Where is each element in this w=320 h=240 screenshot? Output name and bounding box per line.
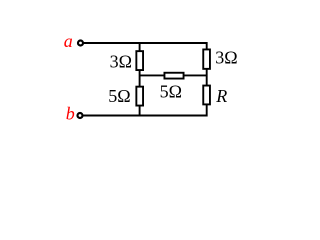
wire: right rail (top corner down to bottom corner) <box>206 42 208 116</box>
svg-text:3Ω: 3Ω <box>110 51 132 71</box>
terminal a circle <box>78 41 83 46</box>
resistor R box <box>203 86 210 105</box>
svg-text:5Ω: 5Ω <box>160 82 182 102</box>
svg-text:5Ω: 5Ω <box>108 86 130 106</box>
wire: top from terminal a to top-right corner <box>83 42 206 44</box>
svg-text:R: R <box>215 86 227 106</box>
svg-text:b: b <box>66 103 75 123</box>
resistor 3ohm left box <box>136 51 143 70</box>
svg-text:3Ω: 3Ω <box>215 47 237 67</box>
resistor 3ohm right box <box>203 49 210 68</box>
svg-text:a: a <box>64 31 73 51</box>
wire: left rail from top wire to bottom wire <box>139 42 141 116</box>
wire: bottom from terminal b to bottom-right corner <box>83 115 207 117</box>
resistor 5ohm left box <box>136 87 143 106</box>
resistor 5ohm middle box <box>164 73 183 79</box>
terminal b circle <box>78 113 83 118</box>
wire: middle bridge between rails <box>140 74 207 76</box>
